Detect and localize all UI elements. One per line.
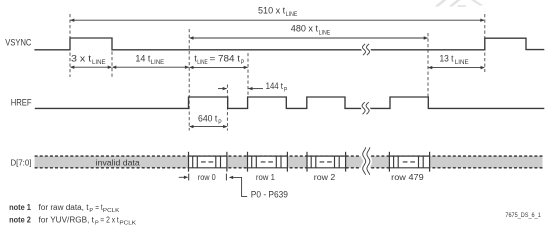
svg-text:= 784 t: = 784 t <box>210 53 241 63</box>
HREF waveform <box>35 97 545 108</box>
signal label VSYNC <box>5 38 32 48</box>
dimension arrow 3 x tLINE <box>70 66 112 69</box>
data row 479 segment <box>389 152 429 172</box>
svg-text:PCLK: PCLK <box>119 220 136 226</box>
dashed guide at x=189 <box>188 29 190 131</box>
svg-text:LINE: LINE <box>455 59 469 66</box>
data row 1 segment <box>248 152 288 172</box>
svg-text:for YUV/RGB, t: for YUV/RGB, t <box>39 215 95 224</box>
label 640 tP <box>198 113 222 125</box>
dimension arrow 480 x tLINE <box>189 36 428 39</box>
signal label D[7:0] <box>11 158 32 168</box>
label 480 x tLINE <box>291 24 330 37</box>
label 510 x tLINE <box>258 6 297 19</box>
svg-text:row 2: row 2 <box>314 172 336 182</box>
label 14 tLINE <box>135 53 164 66</box>
dimension arrow 13 tLINE <box>428 66 485 69</box>
dimension arrow tLINE = 784 tP <box>189 66 248 69</box>
svg-text:13 t: 13 t <box>440 53 454 63</box>
signal label HREF <box>11 97 32 107</box>
dashed guide at x=70 <box>69 14 71 77</box>
svg-text:LINE: LINE <box>197 59 207 66</box>
svg-text:note 1: note 1 <box>9 203 31 212</box>
P0-P639 leader line <box>229 176 247 197</box>
figure id 7675_DS_6_1 <box>505 212 541 219</box>
data row 0 segment <box>189 152 227 172</box>
svg-text:P: P <box>95 220 99 226</box>
arrow into gap right side (144 tP) <box>248 87 263 90</box>
label 3 x tLINE <box>71 53 106 66</box>
arrow into gap left side (144 tP) <box>218 87 227 90</box>
dimension arrow 14 tLINE <box>112 66 189 69</box>
svg-text:row 1: row 1 <box>256 172 275 182</box>
data row 2 segment <box>307 152 346 172</box>
svg-text:P: P <box>284 87 287 94</box>
data bus invalid band <box>35 156 543 168</box>
svg-text:LINE: LINE <box>92 59 106 66</box>
svg-text:510 x t: 510 x t <box>258 6 286 16</box>
svg-text:invalid data: invalid data <box>96 157 140 167</box>
svg-text:LINE: LINE <box>151 59 164 66</box>
svg-text:LINE: LINE <box>319 29 331 36</box>
VSYNC line break symbol <box>363 44 370 55</box>
svg-text:3 x t: 3 x t <box>71 53 92 63</box>
svg-text:640 t: 640 t <box>198 113 218 123</box>
row 2 label <box>314 172 336 182</box>
label 144 tP <box>266 81 288 93</box>
row 0 label <box>198 172 216 182</box>
VSYNC waveform <box>34 38 544 50</box>
svg-text:note 2: note 2 <box>9 215 31 224</box>
svg-text:D[7:0]: D[7:0] <box>11 158 32 168</box>
dimension arrow 640 tP <box>189 125 227 128</box>
svg-text:HREF: HREF <box>11 97 32 107</box>
HREF line break symbol <box>362 102 369 114</box>
note 2 <box>9 215 136 226</box>
row 0 right tick <box>225 174 227 181</box>
label 13 tLINE <box>440 53 469 66</box>
row 0 left arrow <box>179 176 188 179</box>
svg-text:row 0: row 0 <box>198 172 216 182</box>
svg-text:7675_DS_6_1: 7675_DS_6_1 <box>505 212 541 219</box>
svg-text:= 2 x t: = 2 x t <box>100 215 119 224</box>
row 0 left tick <box>188 174 190 181</box>
row 479 label <box>391 172 424 182</box>
svg-text:480 x t: 480 x t <box>291 24 319 34</box>
svg-text:P: P <box>241 59 244 66</box>
note 1 <box>9 203 119 214</box>
label tLINE = 784 tP note <box>194 53 244 66</box>
svg-text:for raw data, t: for raw data, t <box>39 203 90 212</box>
dashed guide at x=428 <box>427 33 429 97</box>
svg-text:P: P <box>218 119 221 126</box>
svg-text:VSYNC: VSYNC <box>5 38 32 48</box>
svg-text:PCLK: PCLK <box>103 208 120 214</box>
row 1 label <box>256 172 275 182</box>
dashed guide at x=485 <box>484 14 486 72</box>
dashed guide at x=112 <box>111 52 113 78</box>
dashed guide at x=227.5 <box>226 85 228 131</box>
svg-text:144 t: 144 t <box>266 81 284 91</box>
dimension arrow 510 x tLINE <box>70 19 485 22</box>
data band break symbol <box>363 147 370 174</box>
svg-text:row 479: row 479 <box>391 172 424 182</box>
svg-text:P: P <box>89 208 93 214</box>
invalid data text <box>96 157 140 167</box>
svg-text:LINE: LINE <box>286 11 298 18</box>
P0 - P639 label <box>251 189 288 199</box>
dashed guide at x=248 <box>247 53 249 97</box>
svg-text:P0 - P639: P0 - P639 <box>251 189 288 199</box>
faint watermark fragment top right <box>435 0 484 7</box>
svg-text:14 t: 14 t <box>135 53 150 63</box>
